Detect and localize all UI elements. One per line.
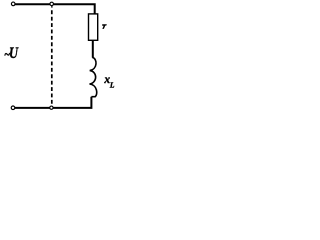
dashed boundary line <box>51 6 53 7</box>
svg-text:L: L <box>109 80 115 89</box>
wire between resistor and inductor <box>92 41 94 58</box>
wire top (from left terminal to resistor top lead) <box>15 4 95 14</box>
inductor xL coil <box>90 57 97 96</box>
resistor r body <box>89 14 98 40</box>
terminal top-left <box>11 2 15 6</box>
terminal bottom-left <box>11 106 15 110</box>
label r <box>102 24 107 29</box>
node bottom junction at dashed line <box>50 106 53 109</box>
wire bottom (from left terminal to inductor bottom lead) <box>15 97 92 108</box>
svg-text:U: U <box>9 45 19 63</box>
node top junction at dashed line <box>50 2 54 6</box>
